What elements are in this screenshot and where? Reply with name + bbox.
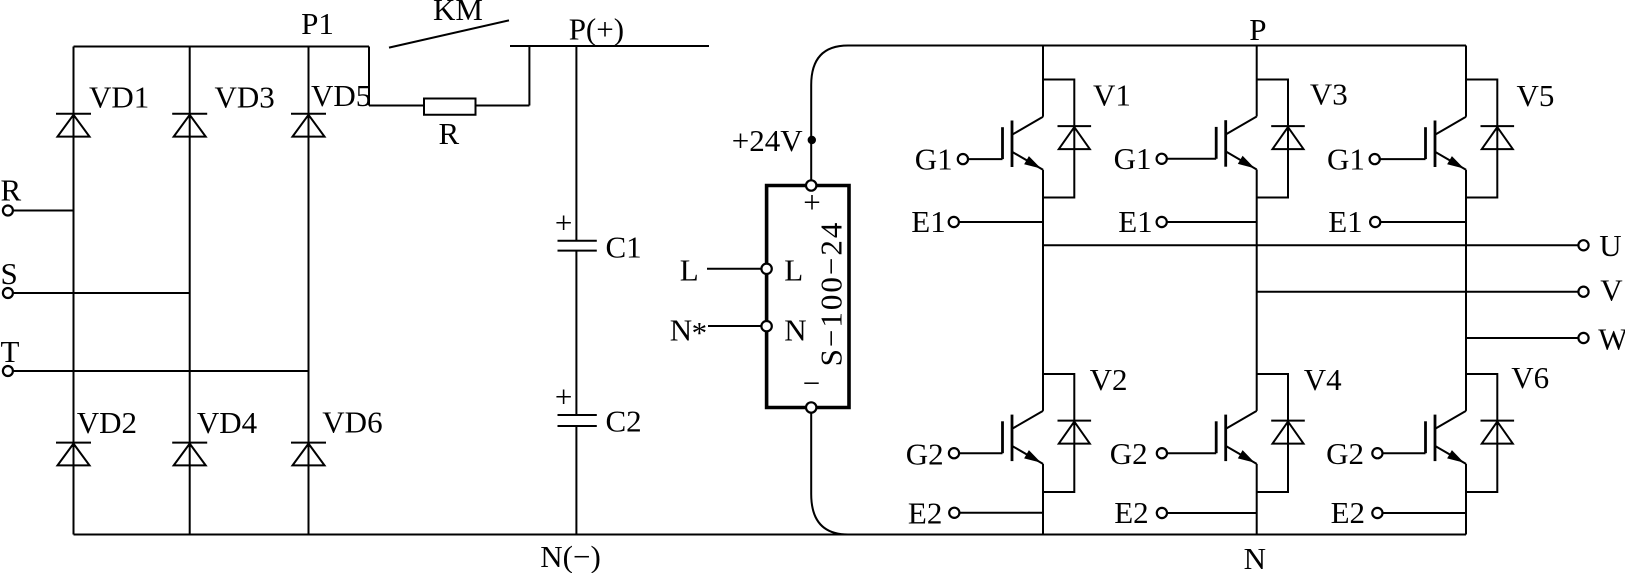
svg-text:S−100−24: S−100−24 xyxy=(813,221,848,367)
svg-text:+24V: +24V xyxy=(732,123,803,158)
svg-text:S: S xyxy=(1,256,18,291)
svg-text:C2: C2 xyxy=(606,404,642,439)
svg-text:P1: P1 xyxy=(301,6,334,41)
svg-text:V2: V2 xyxy=(1090,362,1128,397)
svg-text:N(−): N(−) xyxy=(540,539,601,573)
svg-text:VD4: VD4 xyxy=(197,405,258,440)
svg-text:VD3: VD3 xyxy=(215,80,275,115)
svg-text:G1: G1 xyxy=(1114,141,1152,176)
svg-text:N: N xyxy=(1244,541,1266,573)
svg-text:R: R xyxy=(439,116,460,151)
svg-text:N: N xyxy=(784,312,806,347)
svg-text:G1: G1 xyxy=(1327,142,1365,177)
svg-text:G2: G2 xyxy=(906,436,944,471)
svg-text:VD5: VD5 xyxy=(311,78,371,113)
svg-text:C1: C1 xyxy=(606,230,642,265)
svg-text:+: + xyxy=(803,185,820,220)
svg-text:E2: E2 xyxy=(908,495,942,530)
svg-text:W: W xyxy=(1598,322,1625,357)
svg-text:VD2: VD2 xyxy=(77,405,137,440)
svg-text:V: V xyxy=(1600,273,1623,308)
svg-text:V5: V5 xyxy=(1517,78,1555,113)
svg-text:N: N xyxy=(670,312,692,347)
svg-text:V1: V1 xyxy=(1093,78,1131,113)
svg-text:P: P xyxy=(1249,12,1266,47)
svg-text:VD6: VD6 xyxy=(322,405,382,440)
svg-text:KM: KM xyxy=(433,0,483,27)
svg-text:G2: G2 xyxy=(1110,436,1148,471)
svg-text:*: * xyxy=(692,315,708,350)
svg-text:G1: G1 xyxy=(915,142,953,177)
svg-text:R: R xyxy=(1,173,22,208)
svg-text:G2: G2 xyxy=(1326,436,1364,471)
svg-text:P(+): P(+) xyxy=(569,12,624,47)
svg-text:E1: E1 xyxy=(1118,204,1152,239)
svg-text:+: + xyxy=(555,379,572,414)
svg-text:VD1: VD1 xyxy=(89,80,149,115)
svg-text:L: L xyxy=(784,253,803,288)
svg-text:V3: V3 xyxy=(1310,76,1348,111)
svg-text:T: T xyxy=(1,334,20,369)
svg-text:+: + xyxy=(555,205,572,240)
svg-text:V6: V6 xyxy=(1511,360,1549,395)
svg-text:E2: E2 xyxy=(1331,495,1365,530)
svg-text:E1: E1 xyxy=(1328,204,1362,239)
svg-text:E1: E1 xyxy=(911,204,945,239)
svg-text:V4: V4 xyxy=(1304,362,1342,397)
svg-text:−: − xyxy=(803,365,820,400)
svg-text:U: U xyxy=(1599,228,1621,263)
svg-text:E2: E2 xyxy=(1114,495,1148,530)
svg-text:L: L xyxy=(680,253,699,288)
